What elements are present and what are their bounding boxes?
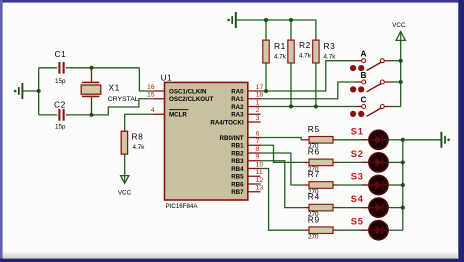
svg-text:R9: R9 [308,214,320,224]
svg-text:R4: R4 [308,192,320,202]
svg-text:S5: S5 [351,217,364,227]
svg-text:R2: R2 [299,40,311,50]
svg-text:RB4: RB4 [231,166,244,173]
svg-text:A: A [361,50,367,59]
svg-text:CRYSTAL: CRYSTAL [108,96,139,103]
svg-text:RB1: RB1 [231,143,244,150]
svg-text:4.7k: 4.7k [324,53,337,60]
svg-text:4: 4 [151,107,155,114]
svg-text:6: 6 [256,130,260,137]
svg-text:X1: X1 [109,82,120,92]
svg-text:C2: C2 [54,100,66,110]
svg-text:11: 11 [256,169,263,176]
svg-text:RB0/INT: RB0/INT [220,135,244,142]
svg-text:RB5: RB5 [231,174,244,181]
svg-text:R6: R6 [308,147,320,157]
svg-text:4.7k: 4.7k [133,144,146,151]
svg-text:18: 18 [256,92,264,99]
svg-text:RB7: RB7 [231,189,244,196]
svg-text:U1: U1 [161,72,173,82]
svg-text:4.7k: 4.7k [299,52,312,59]
svg-text:RB3: RB3 [231,158,244,165]
svg-text:S2: S2 [351,149,364,159]
svg-text:9: 9 [256,154,260,161]
svg-text:270: 270 [308,234,319,241]
svg-text:RB6: RB6 [231,181,244,188]
svg-text:S1: S1 [351,126,364,136]
svg-text:R7: R7 [308,169,320,179]
svg-text:C: C [361,95,367,104]
svg-text:12: 12 [256,177,264,184]
svg-text:R3: R3 [324,41,336,51]
svg-text:2: 2 [256,107,260,114]
svg-text:S3: S3 [351,172,364,182]
svg-text:15p: 15p [55,78,66,85]
svg-text:R5: R5 [308,124,320,134]
svg-text:RA1: RA1 [231,96,244,103]
svg-text:15p: 15p [55,123,66,130]
svg-text:OSC2/CLKOUT: OSC2/CLKOUT [169,96,214,103]
svg-text:VCC: VCC [118,189,132,196]
svg-text:15: 15 [147,92,155,99]
svg-text:17: 17 [256,84,264,91]
svg-text:MCLR: MCLR [169,112,187,119]
svg-text:B: B [361,71,367,80]
svg-text:RA0: RA0 [231,88,244,95]
svg-text:R8: R8 [132,131,144,141]
svg-text:16: 16 [147,84,155,91]
svg-text:8: 8 [256,146,260,153]
svg-text:3: 3 [256,115,260,122]
svg-text:C1: C1 [55,49,67,59]
svg-text:1: 1 [256,99,260,106]
svg-text:13: 13 [256,185,264,192]
svg-text:PIC16F84A: PIC16F84A [166,203,199,210]
svg-text:RA4/TOCKI: RA4/TOCKI [210,119,244,126]
svg-text:10: 10 [256,161,264,168]
svg-text:RA3: RA3 [231,112,244,119]
svg-text:RA2: RA2 [231,104,244,111]
svg-text:OSC1/CLKIN: OSC1/CLKIN [169,88,207,95]
svg-text:S4: S4 [351,194,364,204]
svg-text:VCC: VCC [392,22,406,29]
svg-text:4.7k: 4.7k [274,53,287,60]
svg-text:RB2: RB2 [231,150,244,157]
svg-text:R1: R1 [274,41,286,51]
svg-text:7: 7 [256,138,260,145]
